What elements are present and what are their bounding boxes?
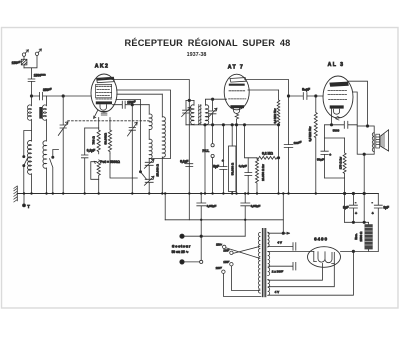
resistor 170 ohm bias — [343, 138, 346, 178]
IF1 core — [198, 105, 201, 125]
AT7 heater — [234, 108, 240, 113]
svg-text:1937-38: 1937-38 — [187, 52, 207, 58]
svg-text:6490: 6490 — [314, 236, 328, 241]
padder trimmer 2 — [144, 176, 154, 193]
node transformer drop bus cross — [363, 192, 365, 194]
svg-text:30.000Ω: 30.000Ω — [104, 132, 108, 144]
switch S3 wave change — [139, 171, 146, 180]
wire AK2 anode to IF1 — [112, 80, 189, 194]
wire tap 150 — [231, 266, 260, 291]
terminal PU bottom — [211, 154, 214, 157]
svg-text:0,05µF: 0,05µF — [251, 204, 261, 208]
wire HV CT cap — [268, 262, 296, 270]
svg-text:AT 7: AT 7 — [228, 65, 244, 71]
output transformer T2 — [357, 126, 374, 154]
resistor 50000 ohm box — [229, 125, 236, 194]
capacitor 150pF antenna — [21, 56, 27, 68]
node transformer bottom — [363, 153, 365, 155]
node choke line 1 — [352, 221, 354, 223]
capacitor 0.05uF no2 — [241, 194, 250, 237]
wire anode2 drop — [268, 264, 334, 287]
svg-text:50µF: 50µF — [317, 157, 324, 161]
lower line junction dots — [200, 219, 246, 221]
resistor 30000 ohm — [108, 130, 111, 154]
wire AK2 grid3 to osc coil — [117, 93, 163, 95]
field coil Exc 2500 ohm — [365, 224, 373, 251]
AK2 cathode — [96, 101, 112, 104]
wire 4V heater with arrow — [268, 232, 289, 234]
AL3 anode plate — [329, 82, 348, 87]
wire AL3 cathode drop — [331, 109, 333, 125]
node AL3 cathode — [330, 124, 332, 126]
node 8uF1 bus — [352, 192, 354, 194]
node 50000 top — [231, 124, 233, 126]
IF1 trimmer right — [208, 99, 217, 125]
wire bus drop 2 — [188, 194, 190, 220]
wire AT7 screen drop with resistor 0.3 Mohm — [277, 90, 280, 194]
capacitor 1500mm series — [28, 79, 35, 96]
svg-text:20.000 Ω 1w: 20.000 Ω 1w — [261, 163, 265, 180]
speaker cone inner — [382, 134, 384, 148]
wire transformer bottom drop — [363, 154, 365, 222]
node choke line 2 — [363, 221, 365, 223]
coupling capacitor to output — [344, 121, 357, 128]
tube AL3 envelope — [323, 76, 353, 118]
padder trimmer 1 — [144, 159, 154, 179]
IF1 secondary coil — [205, 101, 208, 125]
wire tap 110 — [226, 248, 260, 259]
AK2 cathode arrow — [94, 111, 98, 119]
antenna terminal A1 — [22, 50, 28, 57]
capacitor 5uF electrolytic — [220, 125, 227, 194]
node detector drop — [243, 124, 245, 126]
AL3 grid rows — [328, 91, 347, 100]
ground bus wire — [17, 193, 378, 195]
svg-text:5µF: 5µF — [213, 165, 219, 169]
coil L1 antenna primary — [27, 96, 31, 194]
node heater drop join — [282, 232, 284, 234]
AT7 grid rows — [229, 91, 246, 99]
svg-text:0,1µF: 0,1µF — [239, 164, 247, 168]
svg-text:+: + — [355, 212, 357, 216]
wire HT drop to 4V — [268, 251, 353, 295]
wire tap 230 — [223, 273, 261, 296]
node anode stub — [188, 99, 190, 101]
svg-text:0,1µF: 0,1µF — [180, 160, 188, 164]
svg-text:5000: 5000 — [333, 129, 340, 133]
wire rectifier output — [341, 250, 379, 252]
speaker cone — [380, 130, 388, 151]
capacitor on detector line — [245, 158, 252, 194]
wire AK2 cathode osc line — [113, 104, 150, 106]
node bias bus — [343, 192, 345, 194]
wire HV top to rectifier — [268, 250, 314, 252]
node IF bottom — [204, 124, 206, 126]
AK2 anode plate — [97, 77, 115, 83]
wire AL3 cathode node line — [325, 124, 344, 126]
wire mains L1 — [184, 235, 245, 237]
svg-text:0,05µF: 0,05µF — [207, 204, 217, 208]
potentiometer tap arrow — [91, 161, 99, 179]
cathode bias network box — [325, 125, 345, 178]
AT7 heater zigzag — [235, 114, 239, 119]
tube AT7 envelope — [224, 74, 249, 110]
node anode transformer top — [366, 125, 368, 127]
wire AK2 osc grid to switch — [116, 100, 141, 171]
wire IF1 bottom and heater line — [186, 124, 279, 126]
svg-text:+: + — [329, 153, 331, 157]
rectifier anode 2 — [332, 252, 335, 263]
coupling capacitor 8muF — [289, 93, 324, 100]
node mains L1 cross — [200, 235, 202, 237]
wire IF1 secondary to AT7 grid — [205, 99, 226, 101]
wire AK2 base drops — [99, 118, 110, 131]
AL3 heater zigzag — [336, 116, 340, 120]
rectifier filament — [318, 252, 332, 263]
wire anode stub to IF1 — [186, 99, 194, 101]
node grid trimmer — [211, 98, 213, 100]
capacitor 0.1uF cathode — [81, 128, 88, 194]
rectifier anode 1 — [314, 251, 317, 261]
node grid leak top — [315, 95, 317, 97]
svg-text:AK2: AK2 — [95, 64, 110, 70]
terminal selector common — [200, 260, 203, 263]
svg-text:50.000 Ω: 50.000 Ω — [231, 162, 235, 175]
resistor 0.2 Mohm horizontal — [257, 156, 279, 159]
wire AT7 cathode to bus — [236, 119, 238, 193]
wire filament drop 1 — [268, 263, 322, 280]
wire 4V return cap — [268, 243, 296, 251]
svg-text:8µF: 8µF — [383, 206, 389, 210]
wire PU stub — [212, 125, 214, 194]
node 5uF top — [222, 124, 224, 126]
resistor 0.5 Mohm grid leak — [314, 96, 317, 194]
svg-text:0,1µF: 0,1µF — [87, 148, 95, 152]
wire AT7 anode — [245, 80, 289, 96]
terminal PU top — [211, 144, 214, 147]
switch S2 lever — [50, 150, 59, 194]
oscillator coupling coils — [149, 105, 152, 162]
resistor 20000 ohm vertical — [256, 158, 259, 194]
wire AL3 anode — [348, 81, 368, 126]
selector contact 110V — [223, 245, 226, 248]
chassis ground hatch — [14, 186, 17, 202]
bus junction dots — [23, 192, 317, 194]
svg-text:0,3 MΩ ½w: 0,3 MΩ ½w — [273, 108, 277, 124]
transformer T1 primary coil — [258, 232, 260, 293]
transformer secondary HV — [268, 252, 270, 276]
svg-text:8mµF: 8mµF — [302, 87, 310, 91]
svg-text:+: + — [222, 159, 224, 163]
IF1 trimmer left — [182, 100, 191, 124]
svg-text:170 Ω 1w: 170 Ω 1w — [338, 156, 342, 169]
svg-text:2500 Ω: 2500 Ω — [359, 231, 363, 242]
mains terminal L2 — [180, 260, 184, 264]
svg-text:AL 3: AL 3 — [328, 62, 345, 68]
terminal T earth — [23, 194, 26, 207]
coil L2 antenna secondary — [42, 96, 46, 194]
IF1 primary coil — [191, 100, 194, 124]
tube AK2 envelope — [91, 74, 117, 112]
node osc line CV2 — [131, 104, 133, 106]
tube 6480 envelope — [308, 247, 341, 268]
capacitor 100pF — [284, 96, 293, 194]
potentiometer 5000 ohm — [97, 160, 100, 194]
AT7 cathode — [230, 105, 244, 108]
resistor 700 ohm — [97, 128, 100, 154]
capacitor 0.1uF anode line — [186, 164, 193, 167]
wire 30000 to osc switch — [110, 154, 137, 178]
capacitor 150pF osc — [122, 101, 125, 108]
capacitor 0.05uF no1 — [197, 194, 206, 261]
AK2 inner shield box — [96, 84, 112, 97]
AK2 heater — [100, 105, 107, 111]
switch S1 contacts — [23, 156, 28, 194]
antenna terminal A2 — [35, 49, 41, 56]
wire choke top line — [345, 222, 369, 224]
wire bias box to bus and choke — [344, 178, 346, 222]
AL3 heater — [334, 109, 340, 114]
svg-text:50 ou 25 ∿: 50 ou 25 ∿ — [172, 250, 189, 254]
svg-text:RÉCEPTEUR RÉGIONAL SUPER 48: RÉCEPTEUR RÉGIONAL SUPER 48 — [125, 37, 291, 48]
wire antenna join — [24, 56, 37, 79]
svg-text:0,5 MΩ ½w: 0,5 MΩ ½w — [308, 126, 312, 142]
svg-text:8µF: 8µF — [343, 206, 349, 210]
svg-text:+: + — [372, 212, 374, 216]
AL3 cathode — [330, 105, 344, 108]
wire cathode network tie — [85, 127, 99, 129]
mains terminal L1 — [180, 234, 184, 238]
wire antenna input line y=96 — [32, 95, 92, 97]
node AT7 anode junction — [287, 95, 289, 97]
wire AL3 screen stub — [353, 92, 358, 125]
oscillator coil L3 — [162, 94, 165, 193]
node on input line — [62, 95, 64, 97]
capacitor 8uF no1 — [349, 194, 357, 223]
transformer secondary 4V top — [268, 232, 269, 247]
selector contact 230V — [222, 270, 225, 273]
wire mains L2 — [184, 261, 199, 263]
AT7 anode plate — [230, 78, 246, 83]
speaker voice coil — [376, 134, 380, 148]
svg-text:4 V: 4 V — [275, 290, 280, 294]
node AT7 heater line — [235, 124, 237, 126]
node antenna join — [30, 95, 32, 97]
node screen heater cross — [277, 124, 279, 126]
svg-text:P.U.: P.U. — [202, 148, 209, 153]
variable capacitor CV1 tuning — [58, 96, 68, 194]
wire IF1 to bus — [204, 125, 206, 194]
node screen detector cross — [277, 157, 279, 159]
svg-text:Exc.: Exc. — [354, 233, 358, 239]
wire bus corner to 8uF no2 — [374, 194, 382, 252]
svg-text:Secteur: Secteur — [172, 244, 191, 249]
wire tap to wave switch — [24, 131, 32, 156]
node rectifier output — [352, 250, 354, 252]
transformer secondary 4V bottom — [268, 279, 270, 295]
wire bus drop left — [164, 194, 166, 220]
AK2 grid rows — [96, 86, 112, 99]
selector contact 130V — [230, 251, 233, 254]
wire heater feed drop — [282, 194, 284, 234]
iron core bar — [39, 107, 42, 119]
svg-text:T: T — [27, 204, 30, 209]
wire AK2 screen — [117, 90, 171, 159]
AK2 heater hatch — [101, 111, 107, 115]
transformer T1 core — [262, 228, 266, 297]
AK2 grid rows in box — [97, 89, 111, 95]
selector contact 150V — [230, 263, 233, 266]
wire AT7 screen — [248, 89, 279, 91]
wire tap 130 — [233, 246, 260, 253]
wire lower distribution line — [165, 219, 283, 221]
capacitor 250pF series — [40, 92, 43, 99]
svg-text:0,2 MΩ: 0,2 MΩ — [262, 152, 273, 156]
ganged tuning dashed link — [68, 120, 150, 122]
capacitor 50uF electrolytic — [321, 151, 328, 154]
variable capacitor CV2 oscillator — [128, 105, 138, 194]
node PU stub — [211, 124, 213, 126]
svg-text:25.000 Ω: 25.000 Ω — [155, 163, 159, 176]
svg-text:4 V: 4 V — [277, 240, 282, 244]
wire detector drop — [245, 125, 258, 158]
svg-text:700 Ω: 700 Ω — [92, 136, 96, 145]
